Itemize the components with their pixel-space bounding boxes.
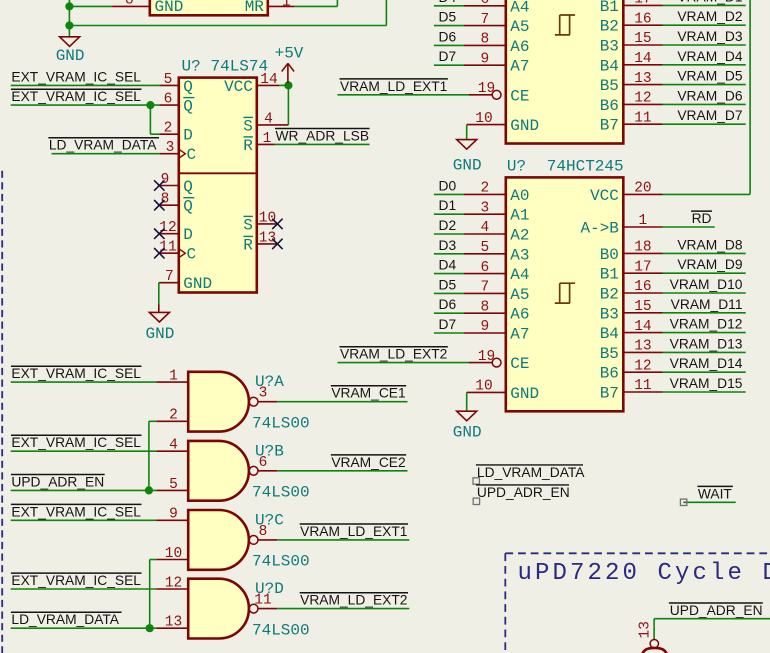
svg-text:14: 14: [260, 72, 277, 88]
pin 9 A7 of IC1 with label D7: [464, 64, 506, 66]
svg-text:GND: GND: [155, 0, 184, 16]
output bubble U?D: [249, 604, 258, 613]
pin 10 GND of IC1: [467, 124, 506, 126]
node junction at pin 5 UPD_ADR_EN: [145, 486, 153, 494]
svg-text:VRAM_CE1: VRAM_CE1: [331, 386, 405, 401]
pin 18 B0 of IC2 with label VRAM_D8: [623, 252, 662, 254]
wire UPD_ADR_EN bottom right: [654, 618, 770, 620]
svg-text:A2: A2: [510, 227, 529, 245]
svg-text:D: D: [183, 226, 193, 244]
pin 6 Q-bar output: [159, 104, 179, 106]
svg-text:74LS00: 74LS00: [252, 415, 310, 433]
pin 16 B2 of IC1 with label VRAM_D2: [623, 24, 662, 26]
svg-text:CE: CE: [510, 87, 529, 105]
wire pin 2 to pin 5 vertical tie: [148, 421, 150, 490]
svg-text:D6: D6: [439, 297, 457, 312]
svg-text:12: 12: [159, 220, 176, 236]
pin 15 B3 of IC2 with label VRAM_D11: [623, 312, 662, 314]
svg-text:VRAM_D5: VRAM_D5: [677, 69, 742, 84]
nand gate U?C 74LS00 body: [188, 510, 249, 570]
svg-text:VRAM_D8: VRAM_D8: [677, 237, 742, 252]
pin 19 CE of IC2 (inverted): [469, 362, 493, 364]
svg-text:uPD7220 Cycle D: uPD7220 Cycle D: [518, 560, 770, 587]
svg-text:14: 14: [634, 51, 651, 67]
pin 10 GND of IC2: [467, 391, 506, 393]
pin 15 B3 of IC1 with label VRAM_D3: [623, 44, 662, 46]
input bubble of bottom gate: [650, 640, 658, 648]
wire input-1 EXT_VRAM_IC_SEL of U?D: [11, 588, 157, 590]
svg-text:D4: D4: [439, 0, 457, 5]
svg-text:17: 17: [634, 0, 651, 8]
svg-text:Q: Q: [183, 178, 193, 196]
wire output of U?B: [277, 470, 407, 472]
nand gate U?B 74LS00 body: [188, 441, 249, 501]
svg-text:8: 8: [161, 192, 170, 208]
svg-text:7: 7: [165, 269, 174, 285]
svg-text:74HCT245: 74HCT245: [547, 157, 624, 175]
nand gate U?A 74LS00 body: [188, 372, 249, 432]
buffer U? 74HCT245 #1 body (partial, top): [506, 0, 624, 144]
pin 13 of bottom gate (rotated): [653, 639, 655, 640]
pin 10 S-bar input (unit 2), no-connect: [257, 223, 278, 225]
svg-text:10: 10: [475, 379, 492, 395]
svg-text:6: 6: [259, 455, 268, 471]
svg-text:Q: Q: [183, 78, 193, 96]
svg-text:WAIT: WAIT: [698, 486, 733, 501]
svg-text:7: 7: [481, 280, 490, 296]
svg-text:19: 19: [478, 349, 495, 365]
svg-text:8: 8: [481, 32, 490, 48]
svg-text:B6: B6: [600, 365, 619, 383]
svg-text:EXT_VRAM_IC_SEL: EXT_VRAM_IC_SEL: [11, 69, 141, 84]
svg-text:B7: B7: [600, 117, 619, 135]
svg-text:LD_VRAM_DATA: LD_VRAM_DATA: [477, 465, 585, 480]
svg-text:D5: D5: [439, 277, 457, 292]
svg-text:10: 10: [475, 111, 492, 127]
pin 2 input 2 of U?A: [156, 420, 188, 422]
wire input-1 EXT_VRAM_IC_SEL of U?B: [11, 450, 157, 452]
svg-text:VCC: VCC: [224, 78, 253, 96]
svg-text:A5: A5: [510, 18, 529, 36]
svg-text:74LS00: 74LS00: [252, 553, 310, 571]
svg-text:7: 7: [481, 12, 490, 28]
svg-text:EXT_VRAM_IC_SEL: EXT_VRAM_IC_SEL: [11, 573, 141, 588]
svg-text:B0: B0: [600, 246, 619, 264]
svg-text:U?: U?: [507, 157, 526, 175]
output bubble U?B: [249, 466, 258, 475]
svg-text:GND: GND: [56, 47, 85, 65]
svg-text:B2: B2: [600, 18, 619, 36]
svg-text:VRAM_LD_EXT2: VRAM_LD_EXT2: [340, 347, 447, 362]
pin 8 A6 of IC2 with label D6: [464, 312, 506, 314]
wire MR to top edge: [295, 5, 338, 7]
pin 8 A6 of IC1 with label D6: [464, 44, 506, 46]
svg-text:3: 3: [259, 386, 268, 402]
wire output of U?A: [277, 401, 407, 403]
svg-text:D4: D4: [439, 258, 457, 273]
svg-text:9: 9: [481, 51, 490, 67]
pin 3 A1 of IC2 with label D1: [464, 213, 506, 215]
svg-text:A0: A0: [510, 187, 529, 205]
ground GND1 top-left: [60, 37, 80, 47]
label LD_VRAM_DATA (dangling): [476, 464, 583, 466]
pin 3 output of U?A: [258, 401, 277, 403]
label EXT_VRAM_IC_SEL at pin 1: [11, 365, 142, 367]
pin 11 C clock input (unit 2), no-connect: [159, 252, 179, 254]
svg-text:WR_ADR_LSB: WR_ADR_LSB: [276, 128, 370, 143]
label WAIT: [697, 485, 733, 487]
label LD_VRAM_DATA at pin 13: [11, 611, 122, 613]
node junction at GND pin wire: [65, 2, 73, 10]
pin 12 B6 of IC1 with label VRAM_D6: [623, 103, 662, 105]
svg-text:VRAM_D14: VRAM_D14: [670, 356, 743, 371]
wire pin 10 to pin 13 vertical tie: [149, 560, 151, 629]
svg-text:A4: A4: [510, 266, 529, 284]
pin 10 input 2 of U?C: [156, 559, 188, 561]
label LD_VRAM_DATA (clock): [48, 137, 159, 139]
wire input-2 LD_VRAM_DATA of U?D: [11, 627, 157, 629]
svg-text:A4: A4: [510, 0, 529, 16]
svg-text:B1: B1: [600, 0, 619, 16]
pin 2 A0 of IC2 with label D0: [464, 193, 506, 195]
svg-text:5: 5: [164, 72, 173, 88]
svg-text:GND: GND: [145, 325, 174, 343]
label EXT_VRAM_IC_SEL at pin 9: [11, 503, 142, 505]
pin GND of partial IC: [112, 5, 150, 7]
pin 16 B2 of IC2 with label VRAM_D10: [623, 292, 662, 294]
wire junction down to pin 2: [149, 105, 151, 134]
pin 14 B4 of IC2 with label VRAM_D12: [623, 332, 662, 334]
svg-text:GND: GND: [510, 385, 539, 403]
pin 13 B5 of IC2 with label VRAM_D13: [623, 351, 662, 353]
svg-text:VCC: VCC: [590, 187, 619, 205]
svg-text:S: S: [243, 216, 253, 234]
svg-text:A6: A6: [510, 38, 529, 56]
svg-text:GND: GND: [453, 424, 482, 442]
svg-text:VRAM_LD_EXT1: VRAM_LD_EXT1: [300, 524, 407, 539]
svg-text:VRAM_D4: VRAM_D4: [677, 49, 742, 64]
svg-text:6: 6: [481, 0, 490, 8]
pin 8 output of U?C: [258, 539, 277, 541]
pin 14 VCC: [257, 84, 279, 86]
svg-text:13: 13: [165, 615, 182, 631]
pin 5 Q output: [159, 84, 179, 86]
label WR_ADR_LSB: [275, 128, 370, 130]
svg-text:4: 4: [264, 111, 273, 127]
label VRAM_LD_EXT1 at IC1 CE: [340, 78, 448, 80]
hysteresis icon IC2: [555, 283, 575, 303]
svg-text:C: C: [187, 146, 197, 164]
wire output of U?D: [277, 608, 409, 610]
label UPD_ADR_EN (dangling): [476, 484, 569, 486]
svg-text:Q: Q: [183, 98, 193, 116]
pin 9 A7 of IC2 with label D7: [464, 332, 506, 334]
label EXT_VRAM_IC_SEL at pin 12: [11, 572, 142, 574]
ground GND2 below 74LS74: [149, 312, 169, 322]
svg-text:18: 18: [634, 240, 651, 256]
pin 12 D input (unit 2), no-connect: [159, 233, 179, 235]
label VRAM_CE1: [331, 385, 406, 387]
svg-text:1: 1: [263, 131, 272, 147]
svg-text:11: 11: [254, 593, 271, 609]
label EXT_VRAM_IC_SEL inverted (Q-bar): [11, 88, 142, 90]
flip-flop U? 74LS74 body: [179, 78, 257, 293]
pin 11 output of U?D: [258, 608, 277, 610]
dashed frame uPD7220 box: [505, 552, 770, 554]
pin 12 B6 of IC2 with label VRAM_D14: [623, 371, 662, 373]
pin 1 R-bar input: [257, 143, 275, 145]
svg-text:9: 9: [481, 319, 490, 335]
svg-text:12: 12: [165, 575, 182, 591]
pin 7 A5 of IC1 with label D5: [464, 25, 506, 27]
svg-text:VRAM_D15: VRAM_D15: [670, 376, 743, 391]
svg-text:A7: A7: [510, 58, 529, 76]
pin 9 Q output (unit 2), no-connect: [159, 185, 179, 187]
svg-text:9: 9: [161, 172, 170, 188]
svg-text:9: 9: [169, 507, 178, 523]
pin 12 input 1 of U?D: [156, 588, 188, 590]
svg-text:10: 10: [259, 210, 276, 226]
output bubble U?C: [249, 536, 258, 545]
wire IC2 GND pin down: [466, 392, 468, 411]
svg-text:D3: D3: [439, 238, 457, 253]
pin 8 Q-bar output (unit 2), no-connect: [159, 204, 179, 206]
svg-text:VRAM_D6: VRAM_D6: [677, 88, 742, 103]
svg-text:A->B: A->B: [580, 220, 618, 238]
ground GND3 below IC1: [457, 140, 477, 150]
svg-text:8: 8: [259, 524, 268, 540]
node junction on pin-6 wire: [146, 101, 154, 109]
svg-text:D7: D7: [439, 317, 457, 332]
pin 11 B7 of IC1 with label VRAM_D7: [623, 123, 662, 125]
svg-text:VRAM_LD_EXT1: VRAM_LD_EXT1: [340, 79, 447, 94]
svg-text:4: 4: [481, 220, 490, 236]
svg-text:U?: U?: [182, 58, 201, 76]
ground GND4 below IC2: [457, 411, 477, 421]
svg-text:13: 13: [638, 621, 654, 638]
svg-text:A7: A7: [510, 326, 529, 344]
power +5V symbol: [287, 64, 289, 83]
svg-text:VRAM_LD_EXT2: VRAM_LD_EXT2: [300, 593, 407, 608]
svg-text:14: 14: [634, 319, 651, 335]
svg-text:3: 3: [481, 200, 490, 216]
wire junction1 to GND pin: [69, 5, 112, 7]
svg-text:5: 5: [169, 477, 178, 493]
output bubble U?A: [249, 397, 258, 406]
svg-text:VRAM_D13: VRAM_D13: [670, 336, 743, 351]
svg-text:D: D: [183, 127, 193, 145]
label VRAM_CE2: [331, 454, 406, 456]
svg-text:B5: B5: [600, 345, 619, 363]
74LS74 unit divider: [179, 172, 257, 174]
wire second horizontal to top edge: [69, 25, 386, 27]
wire VCC up to top edge: [749, 0, 751, 194]
pin 4 S-bar input: [257, 124, 289, 126]
wire VRAM_LD_EXT1 to CE of IC1: [338, 94, 469, 96]
svg-text:EXT_VRAM_IC_SEL: EXT_VRAM_IC_SEL: [11, 504, 141, 519]
svg-text:A3: A3: [510, 246, 529, 264]
wire WR_ADR_LSB at pin 1: [275, 143, 370, 145]
svg-text:R: R: [243, 137, 253, 155]
svg-text:D7: D7: [439, 49, 457, 64]
wire input-2 UPD_ADR_EN of U?B: [11, 489, 157, 491]
svg-text:VRAM_D1: VRAM_D1: [677, 0, 742, 4]
pin 3 C clock input: [159, 153, 179, 155]
svg-text:EXT_VRAM_IC_SEL: EXT_VRAM_IC_SEL: [11, 89, 141, 104]
svg-text:17: 17: [634, 259, 651, 275]
svg-text:RD: RD: [692, 211, 712, 226]
wire EXT_VRAM_IC_SEL to pin 5: [11, 84, 160, 86]
wire IC1 GND pin down: [466, 125, 468, 140]
node junction at VCC: [284, 81, 292, 89]
pin 5 input 2 of U?B: [156, 489, 188, 491]
pin MR of partial IC, pin 1: [268, 5, 295, 7]
svg-text:VRAM_D10: VRAM_D10: [670, 277, 743, 292]
svg-text:74LS00: 74LS00: [252, 484, 310, 502]
svg-text:B4: B4: [600, 325, 619, 343]
pin 7 A5 of IC2 with label D5: [464, 292, 506, 294]
svg-text:11: 11: [634, 110, 651, 126]
svg-text:6: 6: [164, 92, 173, 108]
svg-text:D0: D0: [439, 178, 457, 193]
svg-text:VRAM_D7: VRAM_D7: [677, 108, 742, 123]
buffer U? 74HCT245 #2 body: [506, 177, 624, 411]
svg-text:13: 13: [634, 71, 651, 87]
svg-text:Q: Q: [183, 198, 193, 216]
svg-text:B6: B6: [600, 97, 619, 115]
svg-text:16: 16: [634, 11, 651, 27]
pin 9 input 1 of U?C: [156, 519, 188, 521]
pin 7 GND: [159, 282, 179, 284]
svg-text:3: 3: [166, 140, 175, 156]
pin 13 input 2 of U?D: [156, 627, 188, 629]
wire +5V junction down to pin 4: [287, 85, 289, 125]
pin 2 D input: [159, 133, 179, 135]
wire input-1 EXT_VRAM_IC_SEL of U?A: [11, 381, 157, 383]
node junction at pin 13 LD_VRAM_DATA: [146, 624, 154, 632]
hysteresis icon IC1: [555, 15, 575, 35]
svg-text:12: 12: [634, 358, 651, 374]
wire VRAM_LD_EXT2 to CE of IC2: [338, 362, 469, 364]
svg-text:GND: GND: [183, 275, 212, 293]
svg-text:15: 15: [634, 299, 651, 315]
svg-text:UPD_ADR_EN: UPD_ADR_EN: [11, 474, 104, 489]
svg-text:6: 6: [481, 260, 490, 276]
svg-text:4: 4: [169, 438, 178, 454]
svg-text:A5: A5: [510, 286, 529, 304]
svg-text:GND: GND: [510, 117, 539, 135]
svg-text:16: 16: [634, 279, 651, 295]
svg-text:LD_VRAM_DATA: LD_VRAM_DATA: [11, 612, 119, 627]
svg-text:VRAM_CE2: VRAM_CE2: [331, 455, 405, 470]
svg-text:10: 10: [165, 546, 182, 562]
label UPD_ADR_EN at pin 5: [11, 474, 105, 476]
label VRAM_LD_EXT2: [300, 592, 408, 594]
svg-text:D5: D5: [439, 10, 457, 25]
svg-text:B3: B3: [600, 38, 619, 56]
svg-text:74LS00: 74LS00: [252, 621, 310, 639]
svg-text:B2: B2: [600, 286, 619, 304]
dashed frame left edge (left sheet): [1, 171, 3, 653]
pin 17 B1 of IC2 with label VRAM_D9: [623, 272, 662, 274]
svg-text:1: 1: [169, 369, 178, 385]
svg-text:GND: GND: [453, 157, 482, 175]
svg-text:19: 19: [478, 81, 495, 97]
svg-text:1: 1: [282, 0, 291, 11]
svg-text:2: 2: [164, 121, 173, 137]
IC U? (partial, top edge) body: [150, 0, 268, 15]
pin 5 A3 of IC2 with label D3: [464, 253, 506, 255]
svg-text:8: 8: [481, 299, 490, 315]
svg-text:R: R: [243, 236, 253, 254]
svg-text:B4: B4: [600, 57, 619, 75]
wire EXT_VRAM_IC_SEL-bar to pin 6: [11, 104, 160, 106]
svg-text:8: 8: [125, 0, 134, 8]
pin 17 B1 of IC1 with label VRAM_D1: [623, 4, 662, 6]
svg-text:LD_VRAM_DATA: LD_VRAM_DATA: [49, 138, 157, 153]
svg-text:B7: B7: [600, 385, 619, 403]
svg-text:13: 13: [634, 339, 651, 355]
pin 11 B7 of IC2 with label VRAM_D15: [623, 391, 662, 393]
label WAIT with dangling wire: [683, 501, 735, 503]
svg-text:CE: CE: [510, 355, 529, 373]
svg-text:UPD_ADR_EN: UPD_ADR_EN: [670, 603, 763, 618]
wire GND net vertical from top edge: [68, 0, 70, 37]
svg-text:VRAM_D12: VRAM_D12: [670, 317, 743, 332]
svg-text:D1: D1: [439, 198, 457, 213]
pin 14 B4 of IC1 with label VRAM_D4: [623, 64, 662, 66]
svg-text:B1: B1: [600, 266, 619, 284]
svg-text:D6: D6: [439, 29, 457, 44]
svg-text:D2: D2: [439, 218, 457, 233]
pin 6 output of U?B: [258, 470, 277, 472]
svg-text:VRAM_D3: VRAM_D3: [677, 29, 742, 44]
svg-text:2: 2: [169, 408, 178, 424]
svg-text:VRAM_D2: VRAM_D2: [677, 9, 742, 24]
pin 1 input 1 of U?A: [156, 381, 188, 383]
svg-text:12: 12: [634, 91, 651, 107]
label EXT_VRAM_IC_SEL at pin 4: [11, 434, 142, 436]
pin 4 input 1 of U?B: [156, 450, 188, 452]
svg-text:13: 13: [259, 230, 276, 246]
wire pin 7 down to ground: [158, 283, 160, 304]
label VRAM_LD_EXT1: [300, 523, 408, 525]
svg-text:20: 20: [634, 181, 651, 197]
svg-text:EXT_VRAM_IC_SEL: EXT_VRAM_IC_SEL: [11, 435, 141, 450]
label VRAM_LD_EXT2 at IC2 CE: [340, 346, 448, 348]
svg-text:A1: A1: [510, 207, 529, 225]
wire output of U?C: [277, 539, 409, 541]
svg-text:A6: A6: [510, 306, 529, 324]
wire input-1 EXT_VRAM_IC_SEL of U?C: [11, 519, 157, 521]
pin 6 A4 of IC2 with label D4: [464, 273, 506, 275]
pin 1 A->B direction of IC2 with label RD-bar: [623, 226, 662, 228]
pin 19 CE of IC1 (inverted): [469, 94, 493, 96]
svg-text:11: 11: [634, 378, 651, 394]
svg-text:B3: B3: [600, 305, 619, 323]
svg-text:1: 1: [639, 213, 648, 229]
pin 4 A2 of IC2 with label D2: [464, 233, 506, 235]
pin 13 R-bar input (unit 2), no-connect: [257, 243, 278, 245]
svg-text:EXT_VRAM_IC_SEL: EXT_VRAM_IC_SEL: [11, 366, 141, 381]
svg-text:5: 5: [481, 240, 490, 256]
nand gate body partial at bottom edge: [642, 648, 668, 653]
svg-text:VRAM_D11: VRAM_D11: [671, 297, 743, 312]
pin 13 B5 of IC1 with label VRAM_D5: [623, 84, 662, 86]
pin 20 VCC of IC2: [623, 193, 662, 195]
svg-text:2: 2: [481, 181, 490, 197]
node junction at second wire: [65, 21, 73, 29]
